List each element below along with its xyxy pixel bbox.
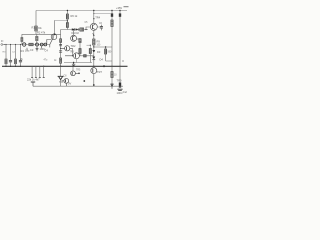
svg-text:+35V: +35V: [116, 6, 122, 10]
wire far right column: [119, 11, 121, 83]
resistor R15: [105, 47, 107, 49]
resistor R5 series: [29, 43, 33, 46]
wire terminal drops: [32, 66, 44, 77]
svg-text:2n2: 2n2: [123, 90, 128, 94]
node dot: [122, 60, 123, 61]
capacitor C6: [97, 26, 101, 28]
resistor R18: [87, 45, 91, 48]
svg-text:D3: D3: [97, 50, 101, 54]
transistor Q2: [90, 23, 97, 30]
wire to Q2 base: [86, 27, 90, 30]
capacitor C3 shunt: [20, 45, 22, 61]
resistor R16: [111, 11, 113, 21]
resistor R9: [93, 39, 95, 45]
wire mid rail right: [94, 45, 112, 47]
wire right column: [111, 27, 113, 72]
ground rail 0V: [2, 65, 128, 67]
svg-text:TR7: TR7: [97, 70, 102, 74]
wire: [79, 43, 81, 49]
wire feedback column: [60, 30, 62, 59]
node C: [66, 19, 68, 23]
wire Q3 to R10: [76, 38, 79, 40]
transistor Q1: [51, 34, 57, 40]
svg-text:TR4: TR4: [95, 15, 100, 19]
svg-text:R9: R9: [97, 40, 101, 44]
capacitor C5: [40, 43, 43, 46]
capacitor C7: [59, 44, 62, 45]
diode D6: [111, 78, 113, 84]
capacitor C10: [117, 89, 122, 90]
node dots on input line: [5, 44, 21, 45]
wire: [94, 13, 111, 15]
transistor Q7: [64, 78, 69, 83]
capacitor C8: [59, 51, 62, 52]
label +35V: [116, 6, 129, 10]
resistor R2: [36, 34, 38, 36]
resistor R17: [111, 72, 113, 78]
resistor R10: [79, 39, 81, 43]
resistor R11: [79, 49, 81, 54]
wire Q2 emitter down: [93, 30, 95, 39]
resistor R13: [60, 58, 62, 63]
svg-text:D1 D2: D1 D2: [72, 31, 80, 35]
resistor R1: [35, 26, 38, 31]
wire bottom bus: [33, 85, 123, 87]
resistor R4 shunt: [15, 45, 17, 60]
capacitor C1 coupling: [23, 43, 26, 46]
wire lower mid: [64, 62, 92, 64]
wire Q1 collector: [54, 20, 56, 34]
resistor R6: [66, 11, 68, 15]
resistor R2a bias: [21, 34, 23, 37]
transistor Q3: [71, 35, 77, 41]
svg-text:TR9: TR9: [117, 79, 122, 83]
resistor R14: [84, 55, 87, 57]
node A: [36, 43, 39, 46]
wire left drop from rail: [35, 11, 37, 27]
diode D4: [92, 57, 95, 60]
diode D7: [111, 13, 113, 16]
wire Q4 to Q5: [72, 48, 74, 56]
svg-text:TR3: TR3: [70, 51, 75, 53]
capacitor C4: [36, 46, 38, 48]
capacitor C2 shunt: [10, 45, 12, 61]
transistor Q6: [72, 66, 74, 71]
svg-text:R4: R4: [21, 49, 25, 53]
wire input line: [3, 44, 50, 46]
svg-text:IN: IN: [1, 41, 4, 43]
wire: [35, 31, 37, 34]
diode D1: [72, 28, 75, 30]
svg-text:22k 1k 4k7: 22k 1k 4k7: [27, 78, 40, 82]
wire mid bus: [61, 29, 88, 31]
svg-text:C4: C4: [45, 48, 49, 52]
node dot: [83, 80, 85, 82]
diode D8: [119, 13, 121, 16]
resistor R12: [60, 39, 62, 43]
diode D3: [93, 47, 95, 50]
ground: [73, 62, 74, 63]
wire rail to R6 chain: [55, 19, 68, 21]
ground arrow: [31, 81, 35, 83]
svg-text:C3: C3: [30, 48, 34, 52]
svg-text:TR6: TR6: [59, 82, 64, 84]
input terminal: [1, 44, 3, 46]
svg-text:TR5: TR5: [76, 70, 81, 72]
diode D5: [60, 66, 62, 76]
transistor Q4: [65, 46, 70, 51]
node B: [44, 43, 47, 46]
resistor R7: [66, 23, 68, 28]
resistor R8: [80, 28, 84, 31]
wire bias rail: [22, 33, 61, 35]
diode D2: [76, 28, 79, 30]
wire V+ top rail: [36, 10, 127, 12]
svg-text:R1: R1: [32, 26, 36, 30]
svg-text:D4: D4: [100, 58, 104, 62]
wire Q2 collector to rail: [93, 11, 95, 24]
svg-text:TR2: TR2: [71, 44, 76, 48]
svg-text:100n: 100n: [117, 91, 123, 95]
svg-text:0V: 0V: [68, 82, 71, 86]
svg-text:R6 1k: R6 1k: [71, 14, 78, 18]
transistor Q5: [73, 53, 79, 59]
resistor R3 shunt: [5, 45, 7, 60]
svg-text:R2 47k: R2 47k: [37, 31, 46, 35]
transistor Q8: [91, 68, 97, 74]
junction dot top rail: [67, 10, 68, 11]
transistor Q9: [119, 82, 121, 87]
labels row: [3, 47, 49, 61]
